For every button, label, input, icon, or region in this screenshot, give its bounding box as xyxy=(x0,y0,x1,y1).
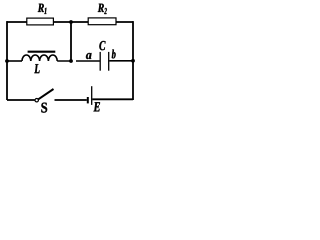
inductor L coils xyxy=(22,55,57,61)
label R2 xyxy=(98,4,104,12)
node junction rail right xyxy=(131,59,135,63)
wire bottom middle segment xyxy=(55,99,87,101)
capacitor C plate b xyxy=(108,52,110,71)
label R1 xyxy=(38,4,44,12)
wire middle vertical xyxy=(70,22,72,61)
label node a xyxy=(86,53,92,59)
wire left side xyxy=(6,21,8,100)
switch S blade xyxy=(38,89,53,99)
resistor R1 xyxy=(27,18,54,25)
label L xyxy=(34,64,39,73)
label S xyxy=(41,103,47,113)
battery E long plate xyxy=(91,86,93,105)
label node b xyxy=(112,50,116,59)
inductor L core bar xyxy=(28,51,56,53)
label E xyxy=(94,102,101,111)
wire bottom-left segment xyxy=(7,99,35,101)
wire top-left segment xyxy=(7,21,27,23)
wire bottom-right segment xyxy=(92,98,133,100)
wire right side xyxy=(132,21,134,100)
capacitor C plate a xyxy=(99,52,101,71)
wire top-right segment xyxy=(116,21,133,23)
switch S pivot circle xyxy=(35,99,38,102)
label C xyxy=(99,41,105,50)
node junction top middle xyxy=(69,20,73,24)
wire rail left segment xyxy=(7,60,22,62)
resistor R2 xyxy=(88,18,116,25)
node junction middle rail xyxy=(69,59,73,63)
node junction rail left xyxy=(5,59,9,63)
wire rail right segment xyxy=(109,60,133,62)
battery E short plate xyxy=(87,97,89,103)
wire between R1 and R2 xyxy=(54,21,89,23)
wire rail middle segment xyxy=(57,60,99,62)
